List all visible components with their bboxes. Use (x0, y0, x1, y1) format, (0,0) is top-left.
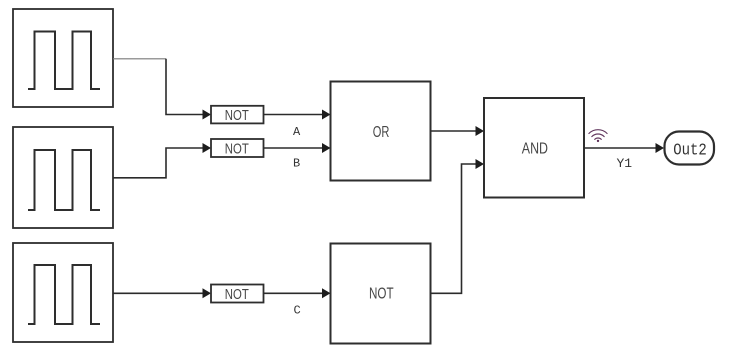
NOT gate U2 (211, 139, 264, 157)
svg-text:Y1: Y1 (617, 156, 633, 171)
NOT gate U1 (211, 106, 264, 124)
svg-text:NOT: NOT (369, 286, 394, 303)
clock source CLK2 (13, 127, 113, 228)
AND gate U6 (484, 98, 584, 198)
wire U1 to OR input A (264, 110, 331, 120)
svg-text:NOT: NOT (225, 141, 249, 157)
wire U2 to OR input B (264, 143, 331, 153)
svg-text:NOT: NOT (225, 108, 249, 124)
wire CLK2 to NOT U2 (113, 143, 211, 178)
wire NOT U5 to AND U6 input 2 (431, 159, 485, 293)
clock source CLK1 (13, 9, 113, 107)
svg-text:A: A (293, 125, 301, 139)
wifi indicator on net Y1 (589, 130, 607, 142)
svg-text:Out2: Out2 (673, 140, 707, 159)
svg-text:OR: OR (373, 124, 390, 141)
output terminal Out2 (665, 132, 715, 165)
clock source CLK3 (13, 243, 113, 342)
svg-text:B: B (293, 157, 300, 171)
wire CLK1 to NOT U1 (113, 59, 211, 120)
wire U3 to NOT U5 input (264, 288, 331, 298)
svg-text:C: C (294, 304, 301, 318)
wire CLK3 to NOT U3 (113, 288, 211, 298)
wire OR U4 to AND U6 input 1 (431, 126, 485, 136)
OR gate U4 (331, 82, 431, 181)
svg-text:NOT: NOT (225, 287, 249, 303)
NOT gate U3 (211, 285, 264, 303)
NOT gate U5 (331, 244, 431, 344)
svg-text:AND: AND (522, 141, 548, 158)
wire AND U6 to Out2 (net Y1) (584, 143, 664, 153)
